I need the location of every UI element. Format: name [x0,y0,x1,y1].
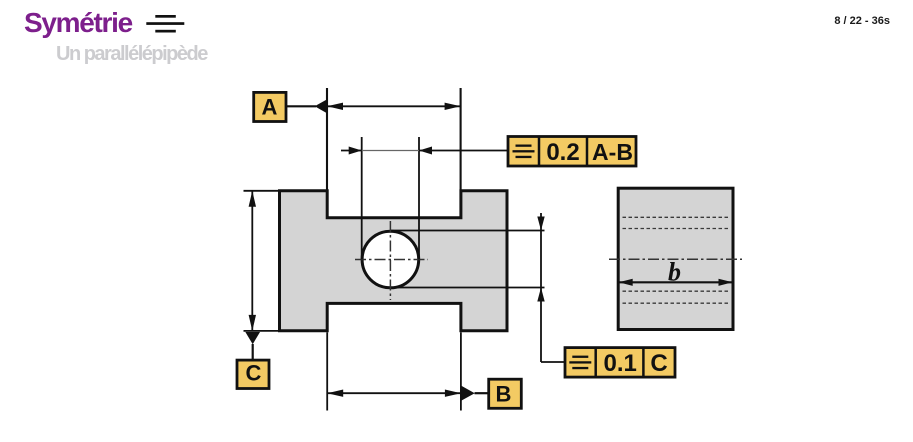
svg-text:A-B: A-B [592,139,633,165]
svg-text:C: C [246,361,262,386]
svg-text:0.1: 0.1 [604,350,637,377]
svg-text:C: C [650,350,667,377]
svg-text:A: A [262,95,278,120]
svg-text:b: b [668,257,681,286]
svg-text:0.2: 0.2 [546,139,579,166]
svg-text:B: B [496,382,512,407]
